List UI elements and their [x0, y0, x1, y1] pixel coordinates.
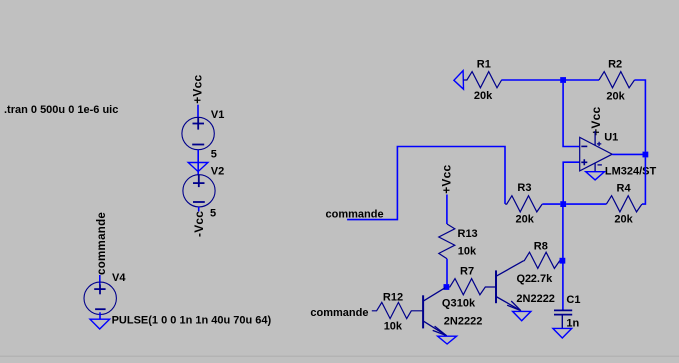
wire noninverting input: [563, 162, 579, 204]
wire V2 bottom stub: [198, 207, 200, 212]
wire V1 top pin: [197, 105, 199, 118]
wire R1 to junction: [501, 79, 563, 81]
ground (Q3 emitter): [438, 336, 457, 344]
transistor Q2: [496, 261, 524, 311]
node junction (R8/C1 net): [560, 258, 566, 264]
svg-text:R8: R8: [534, 241, 548, 253]
svg-text:2N2222: 2N2222: [516, 293, 555, 305]
ground (op-amp V-): [586, 172, 605, 180]
node junction (R13/Q3 collector/R7): [444, 284, 450, 290]
svg-text:+Vcc: +Vcc: [190, 75, 204, 104]
svg-text:20k: 20k: [614, 213, 633, 225]
svg-text:Q2: Q2: [517, 273, 532, 285]
wire +Vcc to R13: [446, 195, 448, 225]
resistor R7: [449, 279, 496, 295]
voltage source V1: [182, 117, 214, 149]
transistor Q3: [423, 288, 447, 336]
svg-text:.tran 0 500u 0 1e-6 uic: .tran 0 500u 0 1e-6 uic: [4, 104, 118, 116]
ground (V4): [90, 319, 110, 329]
wire commande net to R3: [347, 147, 505, 220]
wire R13 to junction: [446, 259, 448, 284]
svg-text:10k: 10k: [457, 298, 476, 310]
resistor R8: [524, 252, 560, 268]
port arrow (R1 left): [454, 71, 464, 90]
svg-text:R1: R1: [477, 59, 491, 71]
svg-text:V2: V2: [211, 165, 224, 177]
wire junction down to inverting input: [563, 83, 579, 147]
svg-text:20k: 20k: [516, 213, 535, 225]
svg-text:2.7k: 2.7k: [531, 273, 553, 285]
node junction (R3/R4/+input/C1): [560, 201, 566, 207]
capacitor C1: [554, 310, 572, 328]
svg-text:LM324/ST: LM324/ST: [605, 166, 657, 178]
svg-text:5: 5: [211, 148, 217, 160]
wire V4 bottom stub: [99, 312, 101, 319]
op-amp U1: [580, 131, 613, 171]
ground (Q2 emitter): [513, 311, 531, 320]
svg-text:V4: V4: [112, 272, 126, 284]
svg-text:+Vcc: +Vcc: [589, 107, 603, 136]
voltage source V2: [183, 175, 215, 207]
svg-text:Q3: Q3: [442, 298, 457, 310]
svg-text:1n: 1n: [566, 317, 579, 329]
svg-text:20k: 20k: [606, 91, 625, 103]
wire R2 right, down to output junction: [635, 80, 646, 152]
svg-text:commande: commande: [326, 208, 384, 220]
wire V1 to V2: [197, 150, 199, 175]
wire junction to R2: [566, 79, 599, 81]
ground (C1): [553, 328, 572, 338]
svg-text:-Vcc: -Vcc: [192, 211, 206, 237]
svg-text:R12: R12: [383, 292, 403, 304]
svg-text:R3: R3: [517, 182, 531, 194]
resistor R4: [606, 196, 642, 212]
svg-text:commande: commande: [96, 212, 108, 275]
svg-text:5: 5: [210, 207, 216, 219]
resistor R2: [599, 72, 635, 88]
node junction (output): [643, 152, 649, 158]
svg-text:2N2222: 2N2222: [444, 316, 483, 328]
svg-text:10k: 10k: [458, 246, 477, 258]
svg-text:+Vcc: +Vcc: [440, 165, 454, 194]
svg-text:10k: 10k: [384, 321, 403, 333]
resistor R3: [505, 196, 542, 212]
svg-text:R7: R7: [460, 266, 474, 278]
voltage source V4: [84, 282, 116, 314]
svg-text:20k: 20k: [474, 90, 493, 102]
wire V4 top pin: [99, 275, 101, 285]
svg-text:R4: R4: [617, 183, 632, 195]
wire R3 junction down to C1: [562, 207, 564, 310]
svg-text:U1: U1: [604, 132, 618, 144]
svg-text:R2: R2: [608, 58, 622, 70]
ground (between V1 and V2): [188, 163, 208, 172]
node junction (R1/R2/inverting input): [560, 77, 566, 83]
wire op-amp output: [612, 153, 642, 155]
resistor R1: [464, 72, 502, 88]
window bottom edge line: [0, 356, 679, 357]
svg-text:R13: R13: [458, 228, 478, 240]
wire output junction down to R4: [642, 157, 645, 204]
svg-text:V1: V1: [211, 109, 224, 121]
resistor R13: [439, 224, 455, 259]
svg-text:PULSE(1 0 0 1n 1n 40u 70u 64): PULSE(1 0 0 1n 1n 40u 70u 64): [112, 314, 272, 326]
resistor R12: [372, 302, 423, 318]
svg-text:commande: commande: [310, 307, 368, 319]
wire R3 to junction: [542, 203, 560, 205]
svg-text:C1: C1: [566, 294, 580, 306]
wire junction to R4: [566, 203, 606, 205]
